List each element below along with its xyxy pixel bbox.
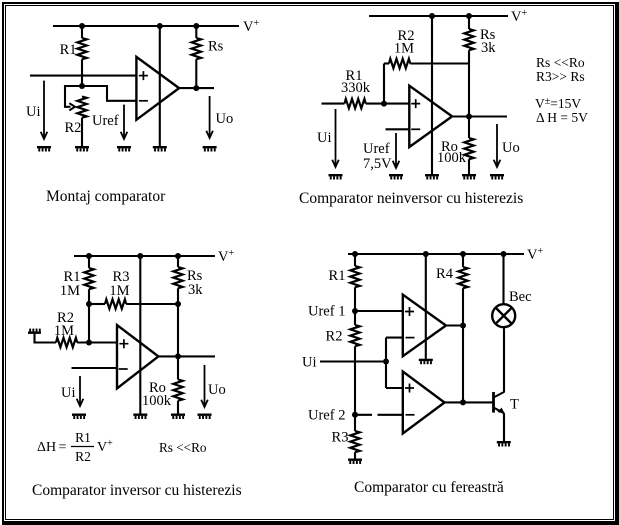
resistor R1 input c2 [322,103,345,105]
node dot Uref1 [352,308,358,314]
wire wiper loop [65,86,82,107]
svg-text:Ui: Ui [302,355,317,371]
wire Uref1 to noninverting input c4 [355,310,403,312]
ground under op-amp c2 [425,174,439,180]
node dot rail/opamp supply c4 [423,251,429,257]
wire V+ rail c2 [369,15,508,17]
op-amp U2 [409,86,452,147]
transistor T emitter diagonal [494,408,505,414]
arrow Uref [123,105,125,139]
resistor R2 feedback c2 [384,62,389,64]
wire to upper inverting input c4 [386,337,403,339]
wire V+ rail c1 [53,25,239,27]
wire upper output c4 [446,324,463,326]
node dot rail/Rs c2 [466,13,472,19]
svg-text:R2: R2 [65,120,82,136]
arrow Ui c3 [79,376,81,406]
svg-text:Uo: Uo [208,382,226,398]
svg-text:Montaj comparator: Montaj comparator [46,188,166,205]
ground under Ui c2 [329,174,343,180]
ground under Uo [203,146,217,152]
wire inverting input c3 [72,367,118,369]
node dot rail/R1 c4 [352,251,358,257]
ground under op-amp [153,146,167,152]
svg-text:Ui: Ui [26,104,41,120]
node dot R1/feedback c2 [381,101,387,107]
arrow Uo [209,96,211,138]
wire to inverting input [82,86,136,101]
ground under Ro c3 [171,414,185,420]
svg-text:330k: 330k [341,80,371,96]
resistor Rs c2 [468,16,470,29]
wire Uref2 to lower inverting input c4 [355,414,372,416]
op-amp U5 plus marker [405,384,414,393]
node dot rail/lamp c4 [501,251,507,257]
wire op-amp supply down [159,26,161,146]
node dot output/Rs/Ro c2 [466,114,472,120]
svg-text:Uref: Uref [363,141,390,157]
node dot R1/R3 c3 [86,301,92,307]
resistor R2 c4 [350,325,359,346]
svg-text:R3>> Rs: R3>> Rs [536,69,585,84]
lamp Bec circle [492,304,515,327]
node dot rail/opamp supply c3 [137,253,143,259]
svg-text:T: T [510,397,519,413]
resistor R3 c4 [350,431,359,452]
wire op-amp U4 supply down c4 [425,254,427,359]
op-amp plus marker c3 [119,339,128,348]
node dot Uref2 [352,412,358,418]
node dot rail/R1 [79,23,85,29]
svg-text:1M: 1M [109,283,129,299]
wire V+ rail c4 [348,253,524,255]
node dot Ui junction c4 [383,359,389,365]
node dot rail/Rs c3 [175,253,181,259]
inverted ground at R2 input c3 [28,329,41,334]
wire op-amp supply down c3 [139,256,141,414]
ground under Uref [117,146,131,152]
op-amp plus marker [139,71,148,80]
resistor R1 c4 [354,254,356,266]
wire rail to lamp c4 [502,254,504,304]
resistor Ro c2 [468,117,470,139]
wire op-amp supply down c2 [431,16,433,174]
svg-text:Rs <<Ro: Rs <<Ro [159,440,207,455]
op-amp minus marker c2 [411,128,420,130]
svg-text:Ui: Ui [61,385,76,401]
svg-text:Uo: Uo [502,140,520,156]
node dot R1/R2 wiper [79,83,85,89]
ground under emitter c4 [497,441,511,447]
ground under Uref c2 [389,174,403,180]
op-amp U1 [136,57,179,120]
wire feedback vertical c2 [383,64,385,104]
svg-text:Comparator neinversor cu histe: Comparator neinversor cu histerezis [299,190,523,207]
wire noninverting input [30,75,136,77]
svg-text:Bec: Bec [509,289,532,305]
op-amp U5 minus marker [406,414,415,416]
node dot output/Rs [193,85,199,91]
svg-text:1M: 1M [60,283,80,299]
svg-text:Uo: Uo [216,111,234,127]
svg-text:1M: 1M [54,323,74,339]
resistor Ro c3 [177,356,179,379]
ground under Uo c3 [198,414,212,420]
ground under Ui c3 [72,414,86,420]
svg-text:Uref 2: Uref 2 [308,408,345,424]
node dot R2/noninv c3 [86,340,92,346]
node dot output/Rs/Ro c3 [175,353,181,359]
wire to lower noninverting input c4 [386,387,403,389]
svg-text:Ui: Ui [317,130,332,146]
wire collector up to lamp c4 [503,327,505,392]
op-amp U4 plus marker [405,307,414,316]
wire from ground to R2 c3 [35,334,57,343]
arrow Uo c2 [496,124,498,167]
svg-text:3k: 3k [188,282,203,298]
wire emitter down c4 [503,413,505,441]
transistor T base bar [492,392,495,413]
wire output [179,87,214,89]
ground under Uo c2 [490,174,504,180]
svg-text:ΔH: ΔH [37,440,56,455]
resistor Rs c3 [177,256,179,267]
wire output c3 [158,355,215,357]
svg-text:1M: 1M [394,41,414,57]
op-amp U3 [117,325,158,388]
op-amp U4 upper [403,295,446,357]
svg-text:3k: 3k [481,40,496,56]
svg-text:V±=15V: V±=15V [535,96,581,111]
svg-text:R3: R3 [332,430,349,446]
wire V+ rail c3 [74,255,215,257]
arrow Ui c2 [335,109,337,167]
svg-text:Comparator cu fereastră: Comparator cu fereastră [354,479,504,496]
ground under R3 c4 [348,459,362,465]
arrow Uref c2 [395,133,397,168]
node dot lower output/R4 c4 [460,399,466,405]
ground under R2 [75,146,89,152]
arrow Uo c3 [204,365,206,407]
transistor T collector diagonal [494,392,505,398]
wire inverting input c2 [386,128,410,130]
resistor R1 c3 [88,256,90,268]
lamp Bec cross [496,308,512,324]
ground under op-amp c3 [133,414,147,420]
svg-text:100k: 100k [142,393,172,409]
op-amp plus marker c2 [411,99,420,108]
svg-text:100k: 100k [437,150,467,166]
node dot rail/Rs [193,23,199,29]
node dot upper output/R4 c4 [460,323,466,329]
svg-text:Δ H = 5V: Δ H = 5V [536,110,588,125]
svg-text:R1: R1 [329,268,346,284]
resistor R2 c3 [56,338,77,347]
wire Ui input c4 [320,360,386,362]
op-amp U5 lower [403,372,445,434]
svg-text:Comparator inversor cu histere: Comparator inversor cu histerezis [32,482,242,499]
node dot rail/opamp supply [157,23,163,29]
ground under Ro c2 [462,174,476,180]
svg-text:R1: R1 [75,430,91,445]
transistor T emitter arrowhead [497,408,504,414]
wire output c2 [452,115,507,117]
op-amp minus marker [139,100,148,102]
svg-text:R1: R1 [60,42,77,58]
node dot R3/Rs c3 [175,301,181,307]
svg-text:Uref 1: Uref 1 [308,304,345,320]
svg-text:R4: R4 [436,266,454,282]
wire lower output to transistor base c4 [445,401,494,403]
resistor R3 c3 [89,303,105,305]
svg-text:=: = [59,440,67,455]
svg-text:R2: R2 [326,329,343,345]
resistor R4 c4 [462,254,464,267]
svg-text:R2: R2 [75,449,91,464]
node dot rail/opamp supply c2 [429,13,435,19]
svg-text:7,5V: 7,5V [363,156,392,172]
potentiometer R2 [77,97,86,118]
ground under op-amp U4 [419,359,433,365]
op-amp minus marker c3 [119,368,128,370]
wire Ui branch vertical c4 [385,338,387,388]
svg-text:Rs <<Ro: Rs <<Ro [536,55,585,70]
wiper arrowhead [69,103,75,110]
arrow Ui [43,81,45,139]
node dot rail/R4 c4 [460,251,466,257]
svg-text:Uref: Uref [92,113,119,129]
svg-text:Rs: Rs [208,39,224,55]
resistor R1 [81,26,83,38]
resistor Rs [195,26,197,38]
op-amp U4 minus marker [406,337,415,339]
node dot rail/R1 c3 [86,253,92,259]
ground under Ui [37,146,51,152]
